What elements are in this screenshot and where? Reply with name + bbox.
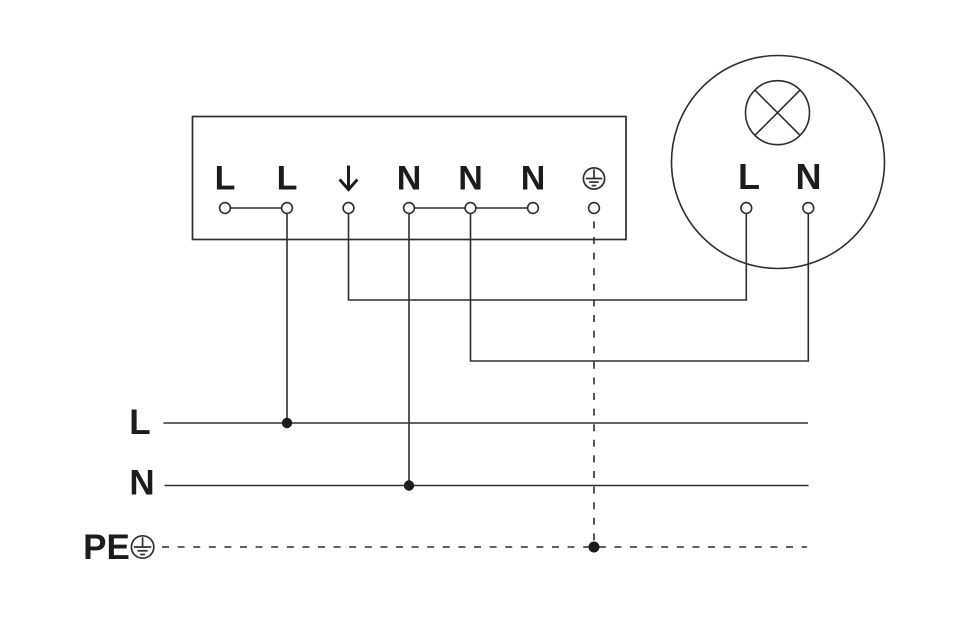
- terminal pin 2 (L): [282, 203, 293, 214]
- svg-text:N: N: [521, 160, 546, 198]
- load device circle (sensor/luminaire): [672, 56, 885, 269]
- svg-text:N: N: [397, 160, 422, 198]
- arrow symbol (switched-output terminal): [340, 166, 358, 190]
- junction dot on N bus: [404, 480, 414, 490]
- svg-text:N: N: [129, 464, 154, 503]
- terminal pin 7 (PE): [589, 203, 600, 214]
- PE bus line (dashed): [162, 546, 807, 548]
- wire: terminal L2 down to L bus: [286, 213, 288, 423]
- svg-text:L: L: [215, 160, 236, 198]
- protective-earth symbol on terminal block: [583, 168, 604, 189]
- terminal pin 6 (N): [528, 203, 539, 214]
- terminal pin 1 (L): [220, 203, 231, 214]
- svg-text:PE: PE: [83, 528, 130, 567]
- protective-earth symbol beside PE label: [131, 536, 153, 558]
- wire: terminal N5 to lamp N: [471, 213, 809, 361]
- N bus line: [165, 485, 809, 487]
- L bus line: [164, 422, 809, 424]
- svg-text:N: N: [796, 156, 822, 197]
- wire link L1-L2: [230, 207, 281, 209]
- wire: terminal N4 down to N bus: [408, 213, 410, 485]
- terminal block outline: [193, 117, 627, 240]
- svg-text:L: L: [738, 156, 760, 197]
- terminal pin 3 (arrow): [343, 203, 354, 214]
- svg-text:L: L: [129, 403, 150, 442]
- junction dot on PE bus: [589, 542, 600, 553]
- svg-text:L: L: [277, 160, 298, 198]
- lamp pin L: [741, 203, 752, 214]
- wire: arrow terminal to lamp L: [349, 213, 747, 300]
- terminal pin 5 (N): [465, 203, 476, 214]
- svg-text:N: N: [458, 160, 483, 198]
- wire link N5-N6: [476, 207, 528, 209]
- lamp pin N: [803, 203, 814, 214]
- lamp symbol: [746, 81, 810, 145]
- wire: PE terminal down to PE bus (dashed): [593, 213, 595, 547]
- terminal pin 4 (N): [404, 203, 415, 214]
- junction dot on L bus: [282, 418, 292, 428]
- wire link N4-N5: [414, 207, 465, 209]
